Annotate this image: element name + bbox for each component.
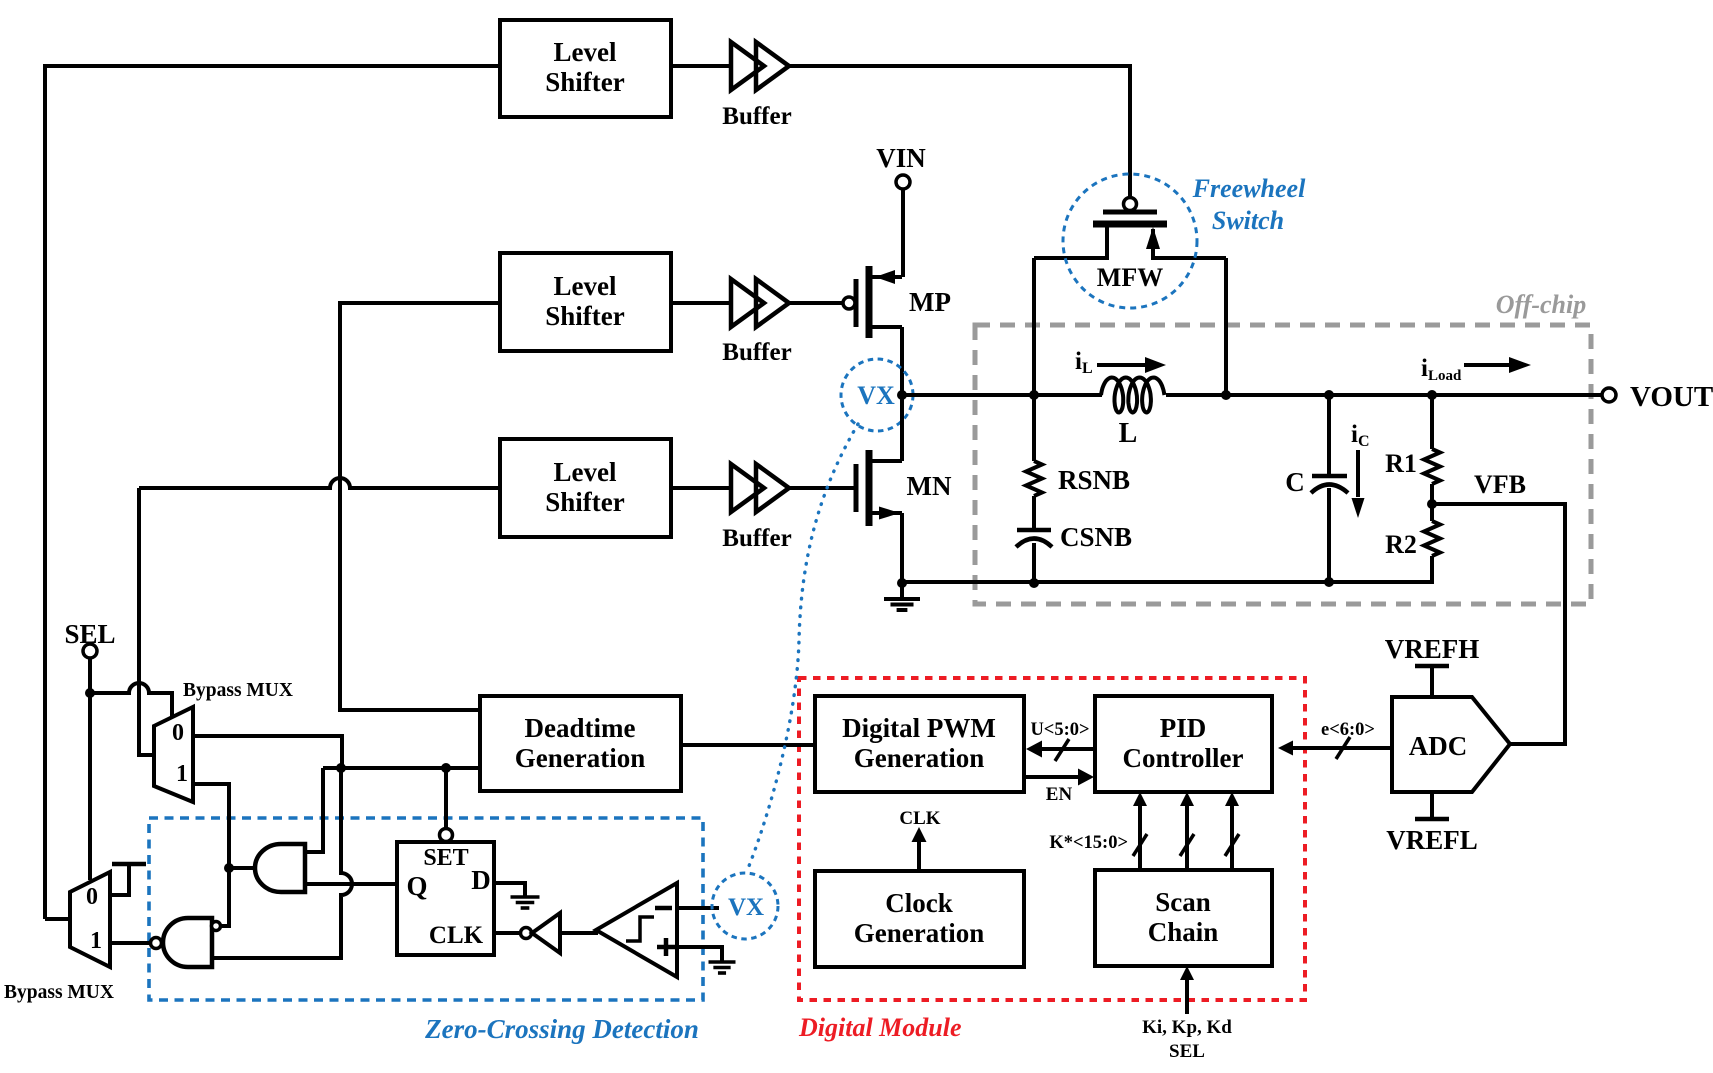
svg-text:Off-chip: Off-chip (1496, 290, 1587, 319)
resistor R2 (1430, 504, 1434, 521)
arrow: inductor current iL (1097, 363, 1146, 367)
VX dashed circle (sense) (712, 873, 778, 939)
wire: MN drain up to VX node (900, 395, 904, 461)
flip-flop U4 (SR latch) (397, 842, 494, 955)
wire: MUX1-0 net down to NAND input2 (hop over Q wire) (212, 768, 352, 958)
svg-text:SEL: SEL (64, 619, 115, 649)
node: deadtime net junction A (336, 763, 346, 773)
wire: Buffer 2 to MP gate (789, 301, 843, 305)
wire: MUX1 output to Level Shifter 3 input (hop over vertical) (139, 478, 500, 488)
buffer B1 (731, 42, 764, 90)
svg-text:K*<15:0>: K*<15:0> (1049, 833, 1128, 853)
wire: MUX1 output to LS3 vertical (139, 488, 154, 755)
VREFL supply (1430, 792, 1434, 819)
svg-text:Deadtime: Deadtime (525, 713, 636, 743)
wire: deadtime net down to DFF SET (444, 768, 448, 828)
ADC block (1392, 697, 1510, 792)
wire: MUX1 input 1 to NAND/AND net (193, 784, 229, 926)
node: AND output junction (224, 863, 234, 873)
capacitor CSNB (1017, 528, 1051, 533)
svg-text:VX: VX (728, 894, 764, 921)
transistor MFW gate bubble (1124, 198, 1137, 211)
wire net: deadtime in2 rail (AND in1 / MUX0 / DFF SET) (323, 766, 480, 770)
svg-text:Generation: Generation (854, 743, 984, 773)
block PID Controller (1095, 696, 1272, 792)
svg-text:VREFH: VREFH (1385, 634, 1480, 664)
node: deadtime net junction B (441, 763, 451, 773)
svg-text:MFW: MFW (1097, 263, 1163, 292)
block Level Shifter (bottom, U3) (500, 439, 671, 537)
svg-text:MN: MN (907, 471, 952, 501)
wire: MUX2 output to left edge riser (45, 917, 70, 921)
arrow: CLK Clock Generation to Digital PWM (917, 841, 921, 871)
transistor MP (PMOS) (854, 279, 859, 327)
svg-text:CSNB: CSNB (1060, 522, 1132, 552)
node: inductor left junction (1029, 390, 1039, 400)
VREFH supply (1415, 664, 1449, 669)
wire: VX to inductor (902, 393, 1102, 397)
svg-text:EN: EN (1046, 784, 1073, 805)
block Clock Generation (815, 871, 1024, 967)
node: SEL branch junction (85, 688, 95, 698)
block Deadtime Generation (480, 696, 681, 791)
block Digital PWM Generation (815, 696, 1024, 792)
svg-text:D: D (471, 865, 491, 895)
svg-text:CLK: CLK (429, 922, 484, 949)
svg-text:1: 1 (90, 928, 102, 954)
svg-text:PID: PID (1160, 713, 1207, 743)
node VX junction (897, 390, 907, 400)
svg-text:Buffer: Buffer (722, 103, 791, 130)
svg-text:e<6:0>: e<6:0> (1321, 720, 1375, 740)
bus slash e<6:0> (1336, 737, 1350, 759)
node: feedback divider mid junction VFB (1427, 499, 1437, 509)
svg-text:C: C (1285, 467, 1305, 497)
node: filter cap top junction (1324, 390, 1334, 400)
buffer B3 (731, 464, 764, 512)
node: snubber ground junction (1029, 578, 1039, 588)
mux: Bypass MUX2 (70, 872, 110, 967)
node VOUT terminal (1602, 388, 1616, 402)
svg-text:Switch: Switch (1212, 206, 1284, 235)
zero-crossing detection dashed region box (149, 818, 703, 1000)
transistor MP gate bubble (843, 297, 855, 309)
node: power ground junction (897, 578, 907, 588)
wire: DFF D input to ground (494, 883, 525, 896)
VX dashed circle (841, 359, 913, 431)
freewheel switch dashed circle (1063, 174, 1197, 308)
wire: MUX1 input 0 to deadtime net (193, 736, 342, 768)
capacitor C (1327, 395, 1331, 476)
svg-text:Zero-Crossing Detection: Zero-Crossing Detection (424, 1014, 699, 1044)
NAND G2 output bubble (151, 938, 162, 949)
arrow: U<5:0> PID to Digital PWM (1040, 747, 1095, 751)
wire: bypass MUX2 output up left edge to Level Shifter 1 input (45, 66, 500, 919)
svg-text:0: 0 (172, 720, 184, 746)
svg-text:RSNB: RSNB (1058, 465, 1130, 495)
arrows: K*<15:0> Scan Chain to PID (3 buses) (1138, 805, 1142, 870)
wire: Buffer 3 to MN gate (789, 486, 856, 490)
NAND G2 input1 bubble (212, 922, 221, 931)
svg-text:SET: SET (423, 845, 468, 871)
svg-text:0: 0 (86, 884, 98, 910)
mux: Bypass MUX1 (154, 707, 193, 802)
node: inductor right junction (1221, 390, 1231, 400)
svg-text:U<5:0>: U<5:0> (1030, 720, 1089, 740)
svg-text:Digital PWM: Digital PWM (842, 713, 996, 743)
wire: comparator minus input from VX (677, 906, 719, 910)
comparator minus input mark (655, 906, 672, 911)
block Scan Chain (1095, 870, 1272, 966)
wire: MN source down to ground rail (900, 513, 904, 583)
wire: MUX2 input 0 stub (110, 864, 129, 895)
arrow: cap current iC (1356, 450, 1360, 497)
svg-text:R1: R1 (1385, 449, 1417, 478)
ground symbol (comparator) (709, 960, 736, 964)
block Level Shifter (top, U1) (500, 20, 671, 117)
svg-text:CLK: CLK (899, 808, 940, 829)
svg-text:MP: MP (909, 287, 951, 317)
svg-text:Freewheel: Freewheel (1192, 174, 1306, 203)
wire: SEL to bypass MUX1 select (hop) (90, 683, 172, 716)
svg-text:Ki, Kp, Kd: Ki, Kp, Kd (1142, 1017, 1232, 1038)
svg-text:Buffer: Buffer (722, 339, 791, 366)
wire: SEL vertical to bypass MUX2 select (88, 658, 92, 880)
svg-text:ADC: ADC (1409, 731, 1468, 761)
svg-text:VX: VX (857, 381, 895, 410)
arrow: EN Digital PWM to PID (1024, 775, 1080, 779)
node: filter cap bottom junction (1324, 577, 1334, 587)
digital module dashed region box (799, 678, 1305, 1000)
wire: MP drain to VX node (900, 277, 904, 395)
NAND gate G2 (mirrored) (163, 918, 212, 967)
wire: VFB to ADC input (1432, 504, 1565, 744)
wire: ADC output e<6:0> to PID Controller (1292, 746, 1392, 750)
wire: VIN to MP source (901, 189, 905, 277)
wire: Level Shifter 1 to Buffer 1 (671, 64, 731, 68)
bus slash U<5:0> (1055, 739, 1069, 761)
ground symbol (DFF D) (511, 895, 540, 899)
wire: Buffer 1 to MFW gate (789, 66, 1130, 197)
resistor R1 (1430, 395, 1434, 449)
block Level Shifter (middle, U2) (500, 253, 671, 351)
svg-text:VFB: VFB (1474, 470, 1526, 499)
svg-text:Shifter: Shifter (545, 301, 625, 331)
AND gate G1 (mirrored) (255, 844, 305, 892)
arrow: load current iLoad (1464, 363, 1509, 367)
svg-text:Bypass MUX: Bypass MUX (4, 982, 114, 1003)
svg-text:Level: Level (554, 271, 617, 301)
wire: Deadtime Generation to Digital PWM Generation (681, 743, 815, 747)
wire: inductor to VOUT (1166, 393, 1602, 397)
wire: AND G1 input1 up to deadtime net (305, 850, 323, 854)
inductor L (1101, 378, 1164, 413)
wire: DFF Q to AND G1 input2 (305, 882, 397, 886)
svg-text:Controller: Controller (1123, 743, 1244, 773)
off-chip dashed region box (975, 325, 1591, 604)
wire: NAND G2 output to MUX2 input 1 (110, 941, 150, 945)
svg-text:Clock: Clock (885, 888, 953, 918)
svg-text:SEL: SEL (1169, 1041, 1205, 1062)
svg-text:L: L (1119, 418, 1138, 449)
wire: ground rail to R2 bottom (902, 556, 1432, 582)
wire: DFF SET bubble stem (440, 829, 453, 842)
svg-text:Shifter: Shifter (545, 487, 625, 517)
wire: DFF CLK from inverter (494, 931, 520, 935)
node SEL terminal (83, 644, 97, 658)
svg-text:Bypass MUX: Bypass MUX (183, 680, 293, 701)
svg-text:1: 1 (176, 761, 188, 787)
wire: Level Shifter 3 to Buffer 3 (671, 486, 731, 490)
svg-text:VREFL: VREFL (1386, 825, 1478, 855)
svg-text:Buffer: Buffer (722, 525, 791, 552)
wire: comparator plus input to ground (677, 947, 722, 961)
transistor MN (NMOS) (854, 464, 859, 512)
transistor MFW (freewheel PMOS) (1103, 210, 1157, 215)
wire: AND G1 output (229, 866, 255, 870)
wire: MFW source down to VX rail (1032, 258, 1036, 395)
wire: MFW drain down to inductor right node (1224, 258, 1228, 395)
comparator hysteresis symbol (626, 917, 654, 941)
dotted connector: VX node to VX sense (749, 424, 858, 866)
svg-text:Chain: Chain (1148, 917, 1219, 947)
inverter G3 (points left) (532, 913, 560, 953)
svg-text:R2: R2 (1385, 530, 1417, 559)
comparator plus input mark (657, 938, 675, 956)
svg-text:Level: Level (554, 37, 617, 67)
comparator U5 (zero-crossing, points left) (596, 883, 677, 977)
node: feedback divider top junction (1427, 390, 1437, 400)
node VIN terminal (896, 175, 910, 189)
arrow: Ki Kp Kd SEL into Scan Chain (1185, 979, 1189, 1014)
svg-text:VIN: VIN (876, 143, 926, 173)
buffer B2 (731, 279, 764, 327)
svg-text:Generation: Generation (515, 743, 645, 773)
inverter G3 bubble (521, 928, 532, 939)
svg-text:Shifter: Shifter (545, 67, 625, 97)
svg-text:Generation: Generation (854, 918, 984, 948)
wire: deadtime net up to Level Shifter 2 input and down to Deadtime Generation (340, 303, 500, 710)
svg-text:VOUT: VOUT (1630, 381, 1713, 413)
wire: comparator output to inverter (560, 931, 598, 935)
svg-text:Digital Module: Digital Module (798, 1013, 962, 1042)
svg-text:Level: Level (554, 457, 617, 487)
resistor RSNB (1032, 395, 1036, 461)
svg-text:Q: Q (406, 871, 427, 901)
ground symbol (power stage) (900, 583, 904, 598)
wire: Level Shifter 2 to Buffer 2 (671, 301, 731, 305)
svg-text:Scan: Scan (1155, 887, 1211, 917)
